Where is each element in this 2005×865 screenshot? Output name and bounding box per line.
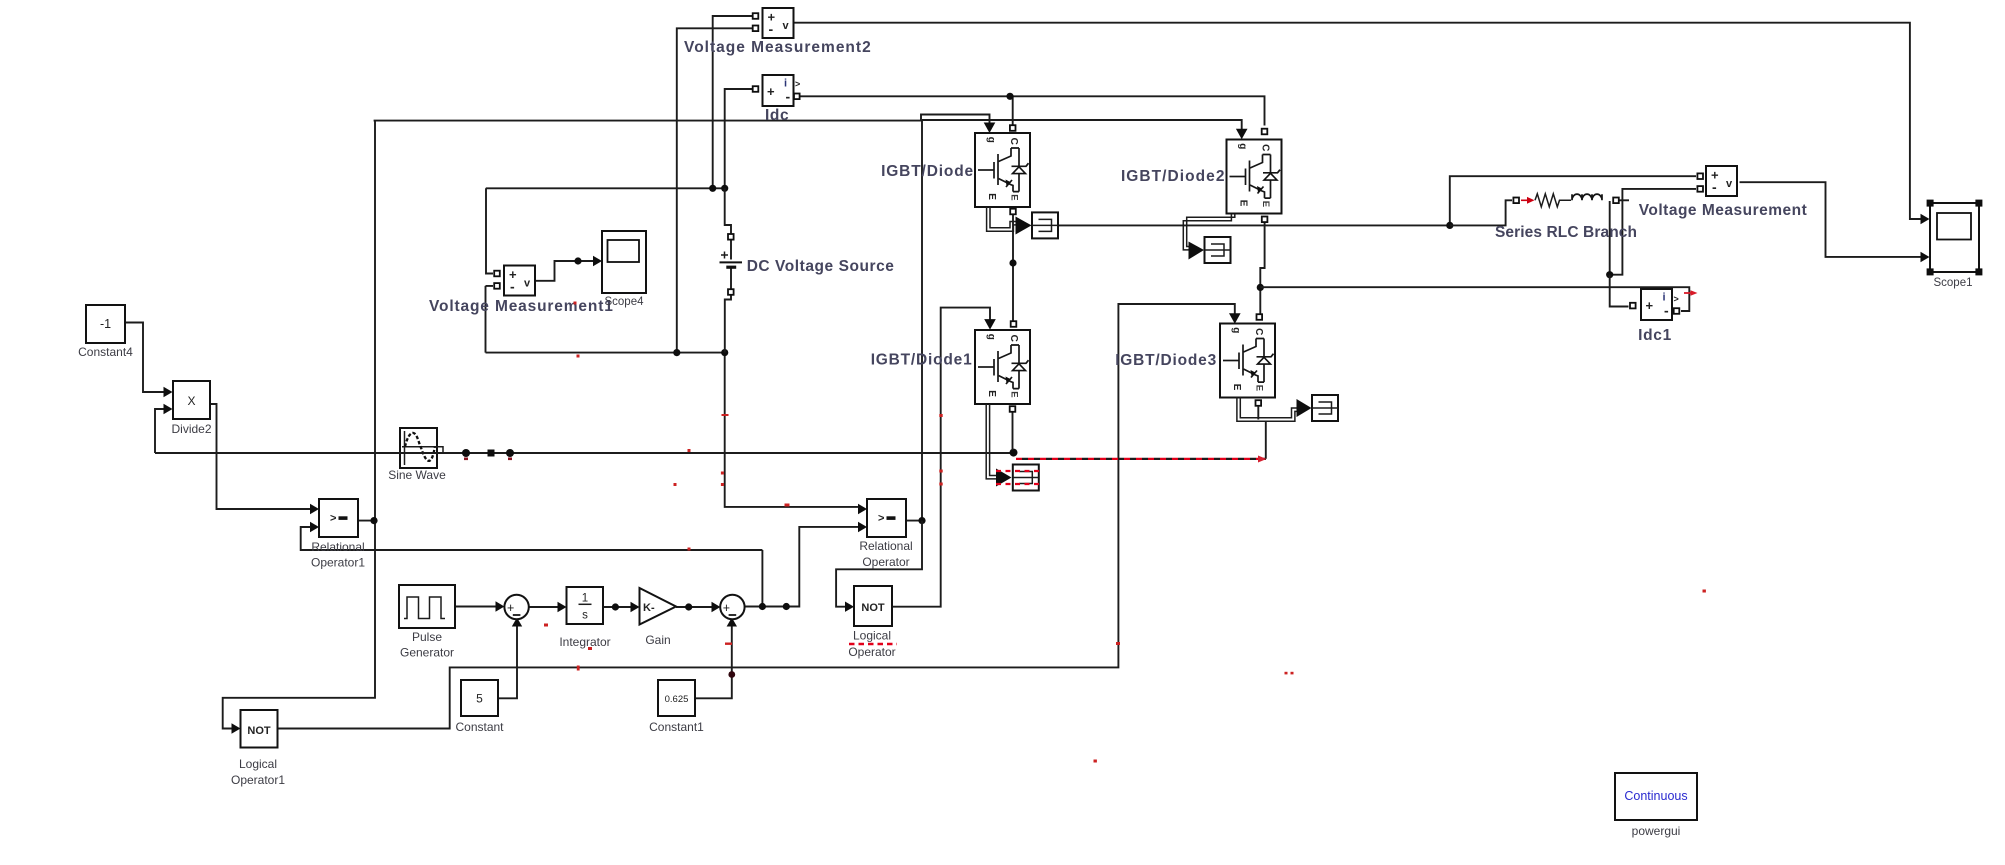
port squares IGBT/Diode <box>1010 125 1016 131</box>
IGBT/Diode2 block <box>1227 140 1282 214</box>
svg-text:DC Voltage Source: DC Voltage Source <box>747 258 895 275</box>
svg-text:-1: -1 <box>100 317 111 331</box>
wire: Integrator to Gain <box>603 606 631 608</box>
svg-text:Relational: Relational <box>859 539 912 553</box>
svg-text:>: > <box>330 513 336 525</box>
svg-text:+: + <box>507 601 514 615</box>
arrows into Relational Operator1 <box>310 504 319 514</box>
wire: hanging vertical to dashed line <box>1265 421 1267 459</box>
svg-text:Constant4: Constant4 <box>78 345 133 359</box>
Voltage Measurement1 block <box>504 266 535 296</box>
wire: stub to IGBT/Diode collector <box>1012 96 1014 125</box>
wire: Sum2 output riser to carrier line <box>761 550 763 607</box>
svg-text:Integrator: Integrator <box>559 635 610 649</box>
Series RLC Branch <box>1513 198 1519 204</box>
svg-text:IGBT/Diode2: IGBT/Diode2 <box>1121 168 1226 185</box>
wire: RelOp output loop down into NOT <box>836 521 922 607</box>
svg-text:Operator: Operator <box>848 645 895 659</box>
arrows into Relational Operator <box>858 504 867 514</box>
measurement double-line IGBT/Diode1 <box>986 404 997 479</box>
svg-text:Sine Wave: Sine Wave <box>388 468 446 482</box>
svg-text:Operator: Operator <box>862 555 909 569</box>
svg-text:Voltage Measurement2: Voltage Measurement2 <box>684 39 872 56</box>
Logical Operator1 (NOT) <box>241 710 278 748</box>
port squares IGBT/Diode3 <box>1257 314 1263 320</box>
node dot load mid <box>1257 284 1264 291</box>
wire: Voltage Measurement1 loop top <box>486 187 725 189</box>
IGBT/Diode1 block <box>975 330 1030 404</box>
measurement double-line IGBT/Diode2 <box>1183 214 1235 250</box>
svg-text:Generator: Generator <box>400 646 454 660</box>
red mark at Idc1 wire corner <box>1684 292 1691 294</box>
big arrow into display3 <box>996 469 1012 487</box>
port squares IGBT/Diode2 <box>1262 129 1268 135</box>
display block 2 (IGBT/Diode2) <box>1205 237 1231 263</box>
Sum2 <box>720 595 744 619</box>
IGBT/Diode3 block <box>1220 324 1275 398</box>
wire: Constant 5 to Sum1 bottom <box>498 626 517 698</box>
Pulse Generator <box>399 585 455 628</box>
display block 1 (IGBT/Diode) <box>1032 212 1058 238</box>
svg-text:Pulse: Pulse <box>412 630 442 644</box>
arrows into Scope1 <box>1921 214 1930 224</box>
svg-text:IGBT/Diode3: IGBT/Diode3 <box>1115 352 1217 369</box>
wire: VM1 loop bottom <box>486 352 725 354</box>
wire: DC source top lead <box>725 188 731 233</box>
wire: RelOp1 input2 from carrier line <box>301 527 763 550</box>
svg-text:>: > <box>1674 294 1679 304</box>
wire: Gain to Sum2 <box>676 606 712 608</box>
wire: VM1 loop left verticals <box>486 188 493 273</box>
wire: RLC output down to node <box>1609 201 1611 275</box>
Scope4 <box>602 231 646 293</box>
Voltage Measurement block (right) <box>1706 166 1737 196</box>
Logical Operator (NOT) <box>854 586 892 626</box>
wire: DC source internal leads <box>730 240 732 289</box>
arrows into Divide2 <box>164 387 173 397</box>
wire: junction to Series RLC left port <box>1450 200 1512 225</box>
wire: IGBT/Diode3 E single stub <box>1257 406 1259 420</box>
svg-text:1: 1 <box>582 593 588 605</box>
display block 4 (IGBT/Diode3) <box>1312 395 1338 421</box>
red tick marks scattered <box>464 302 1706 763</box>
wire: Idc plus input riser <box>725 89 753 188</box>
svg-text:K-: K- <box>643 602 655 614</box>
svg-text:>: > <box>878 513 884 525</box>
Divide2 <box>173 381 210 419</box>
wire: sine line left riser to Divide2 input 2 <box>155 409 165 453</box>
svg-text:Gain: Gain <box>645 633 670 647</box>
red dashed line to load bottom <box>1016 458 1266 460</box>
DC source plus sign <box>721 252 728 259</box>
Constant4 <box>86 305 125 343</box>
svg-text:NOT: NOT <box>861 602 885 614</box>
svg-text:Voltage Measurement: Voltage Measurement <box>1639 202 1808 219</box>
wire: Relational Operator output riser to IGBT/Diode2 gate <box>903 120 1242 521</box>
svg-text:Scope4: Scope4 <box>604 296 644 308</box>
wire: Relational Operator1 output riser <box>223 121 375 729</box>
Idc1 block <box>1641 289 1672 320</box>
wire: Voltage Measurement2 output to Scope1 input 1 <box>794 23 1921 219</box>
wire: IGBT/Diode1 E down to sine line node <box>1012 412 1014 450</box>
svg-text:Series RLC Branch: Series RLC Branch <box>1495 224 1637 241</box>
wire: load node to Idc1 minus <box>1260 287 1689 311</box>
red dashed underline <box>849 643 897 646</box>
svg-text:+: + <box>723 601 730 615</box>
wire: node to VM minus <box>1610 189 1696 275</box>
svg-text:Voltage Measurement1: Voltage Measurement1 <box>429 298 614 315</box>
svg-text:IGBT/Diode: IGBT/Diode <box>881 163 974 180</box>
wire: Voltage Measurement1 output to Scope4 <box>535 261 593 281</box>
Sine Wave <box>400 428 437 468</box>
wire: Logical Operator1 output to IGBT/Diode3 gate <box>277 304 1235 729</box>
node dots on loop bottom <box>673 349 680 356</box>
arrow into IGBT/Diode2 gate <box>1236 129 1248 140</box>
wire: Voltage Measurement2 minus input from bottom loop <box>677 28 753 352</box>
svg-text:NOT: NOT <box>247 725 271 737</box>
arrow into Logical Operator1 <box>232 723 241 733</box>
svg-text:Logical: Logical <box>853 629 891 643</box>
measurement double-line IGBT/Diode <box>987 207 1017 231</box>
wire: load line from RelOp1 down... horizontal y509 into RelOp <box>725 353 859 507</box>
wire: Idc minus output to IGBT collectors <box>800 96 1265 125</box>
svg-text:Idc: Idc <box>765 107 789 124</box>
Relational Operator <box>867 499 906 537</box>
svg-text:Operator1: Operator1 <box>231 773 285 787</box>
svg-text:Scope1: Scope1 <box>1933 277 1972 289</box>
DC source battery plates <box>720 261 743 263</box>
svg-text:0.625: 0.625 <box>665 694 689 705</box>
arrow into IGBT/Diode3 gate <box>1229 313 1241 324</box>
IGBT/Diode block <box>975 133 1030 207</box>
wire: Constant4 output to Divide2 input1 <box>125 323 165 393</box>
svg-text:X: X <box>187 394 195 408</box>
node dots on loop top <box>709 185 716 192</box>
node dots on sine line <box>462 449 470 457</box>
wire: Voltage Measurement output to Scope1 input2 <box>1740 182 1922 257</box>
svg-text:Constant1: Constant1 <box>649 720 704 734</box>
wire: IGBT/Diode2 E down chain <box>1260 223 1264 314</box>
red artifacts: display3 highlight dashes <box>996 470 1042 472</box>
svg-text:powergui: powergui <box>1632 824 1681 838</box>
svg-text:Divide2: Divide2 <box>171 422 211 436</box>
Constant1 <box>658 680 695 716</box>
Sum1 <box>504 595 528 619</box>
arrow into IGBT/Diode1 gate <box>984 319 996 330</box>
wire: long sine-wave line <box>155 452 1014 454</box>
wire: RLC right port trailing stub <box>1620 199 1630 201</box>
arrow into Logical Operator NOT <box>845 602 854 612</box>
svg-text:>: > <box>795 79 800 89</box>
arrow into IGBT/Diode gate <box>984 123 996 134</box>
wire: node down to Idc1 plus <box>1610 275 1629 307</box>
svg-text:Constant: Constant <box>455 720 504 734</box>
wire: Pulse Generator to Sum1 <box>455 606 496 608</box>
wire: Sum2 output to RelOp input2 <box>745 527 859 607</box>
svg-text:Continuous: Continuous <box>1624 789 1687 803</box>
port squares IGBT/Diode1 <box>1011 321 1017 327</box>
Voltage Measurement2 block <box>763 8 794 38</box>
wire: IGBT/Diode E to IGBT/Diode1 C <box>1012 215 1014 321</box>
svg-text:5: 5 <box>476 692 483 706</box>
svg-text:Operator1: Operator1 <box>311 556 365 570</box>
svg-text:Logical: Logical <box>239 757 277 771</box>
wire: gate line from Relational Operator1 to IGBT/Diode gate <box>374 115 990 124</box>
DC Voltage Source ports <box>728 234 734 240</box>
svg-text:Idc1: Idc1 <box>1638 327 1672 344</box>
node dot RelOp output <box>918 517 925 524</box>
display block 3 (IGBT/Diode1) <box>1013 465 1039 491</box>
big arrow into display1 <box>1016 217 1032 235</box>
node dot on Constant1 riser <box>728 671 735 678</box>
node dot Idc output branch <box>1006 93 1013 100</box>
Gain <box>640 588 677 625</box>
big arrow into display2 <box>1189 242 1205 260</box>
big arrow into display4 <box>1297 399 1312 417</box>
wire: Sum1 to Integrator <box>529 606 558 608</box>
powergui <box>1615 773 1697 820</box>
wire: load line from display1 to RLC junction <box>1058 224 1450 226</box>
node dot RLC output <box>1606 271 1613 278</box>
wire: DC source bottom lead <box>725 296 731 353</box>
Scope1 <box>1930 203 1979 272</box>
Integrator <box>567 587 604 624</box>
wire: NOT output up to IGBT/Diode1 gate <box>892 308 990 607</box>
wire: Voltage Measurement2 plus input from node <box>713 16 753 188</box>
wire: Divide2 output to RelOp1 input1 <box>210 404 311 509</box>
node dot RelOp1 output <box>370 517 377 524</box>
measurement double-line IGBT/Diode3 <box>1237 397 1298 421</box>
Relational Operator1 <box>319 499 358 537</box>
svg-text:IGBT/Diode1: IGBT/Diode1 <box>871 352 973 369</box>
node dots Sum2 output <box>759 603 766 610</box>
wire: Constant1 to Sum2 bottom <box>695 626 732 698</box>
wire: junction up to Voltage Measurement plus <box>1450 176 1696 225</box>
Idc block <box>763 75 794 106</box>
svg-text:Relational: Relational <box>311 540 364 554</box>
svg-text:s: s <box>582 610 588 622</box>
Constant <box>461 680 498 716</box>
